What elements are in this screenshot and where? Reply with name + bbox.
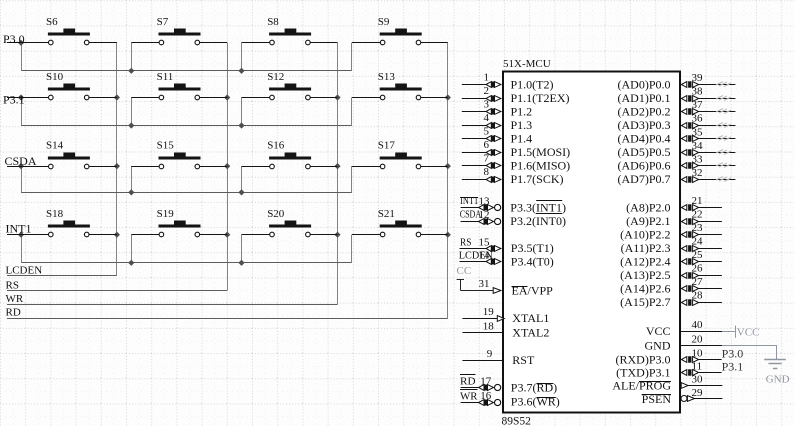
- svg-text:89S52: 89S52: [502, 416, 532, 426]
- svg-text:P1.6(MISO): P1.6(MISO): [511, 159, 571, 173]
- svg-text:GND: GND: [766, 374, 790, 386]
- svg-text:S20: S20: [267, 208, 285, 220]
- svg-text:8: 8: [484, 166, 490, 178]
- svg-text:30: 30: [692, 373, 704, 385]
- svg-text:1: 1: [484, 71, 490, 83]
- svg-text:35: 35: [692, 126, 704, 138]
- svg-text:WR: WR: [460, 390, 478, 402]
- svg-text:XTAL2: XTAL2: [512, 325, 549, 339]
- svg-text:ALE/PROG: ALE/PROG: [612, 379, 671, 393]
- svg-text:(AD3)P0.3: (AD3)P0.3: [618, 118, 671, 132]
- svg-text:(A13)P2.5: (A13)P2.5: [620, 268, 670, 282]
- svg-text:GND: GND: [645, 338, 671, 352]
- svg-text:CSDA: CSDA: [5, 154, 37, 168]
- svg-text:(A15)P2.7: (A15)P2.7: [620, 295, 670, 309]
- svg-text:11: 11: [692, 360, 703, 372]
- svg-text:INT1: INT1: [6, 222, 32, 236]
- svg-text:P1.4: P1.4: [511, 132, 533, 146]
- svg-text:7: 7: [484, 153, 490, 165]
- svg-text:CC: CC: [457, 265, 472, 277]
- svg-text:RS: RS: [460, 236, 472, 248]
- svg-text:36: 36: [692, 113, 704, 125]
- svg-text:24: 24: [692, 236, 704, 248]
- svg-text:28: 28: [692, 290, 704, 302]
- svg-text:2: 2: [484, 85, 490, 97]
- svg-text:S13: S13: [378, 71, 396, 83]
- svg-text:PSEN: PSEN: [642, 392, 672, 406]
- svg-text:S14: S14: [46, 140, 64, 152]
- svg-text:P3.0: P3.0: [3, 32, 25, 46]
- svg-text:3: 3: [484, 98, 490, 110]
- svg-text:S8: S8: [267, 16, 279, 28]
- svg-text:17: 17: [480, 375, 492, 387]
- svg-text:(AD7)P0.7: (AD7)P0.7: [618, 172, 671, 186]
- svg-text:P3.6(WR): P3.6(WR): [511, 395, 560, 409]
- svg-text:S19: S19: [157, 208, 175, 220]
- svg-text:P1.1(T2EX): P1.1(T2EX): [511, 91, 570, 105]
- svg-text:P1.5(MOSI): P1.5(MOSI): [511, 145, 571, 159]
- svg-text:16: 16: [480, 390, 492, 402]
- svg-text:32: 32: [692, 167, 703, 179]
- svg-text:RS: RS: [6, 280, 19, 292]
- svg-text:39: 39: [692, 72, 704, 84]
- svg-text:5: 5: [484, 125, 490, 137]
- svg-text:4: 4: [484, 112, 490, 124]
- svg-text:XTAL1: XTAL1: [512, 311, 549, 325]
- svg-text:LCDEN: LCDEN: [459, 250, 493, 262]
- svg-text:S9: S9: [378, 16, 390, 28]
- svg-text:RD: RD: [6, 306, 21, 318]
- svg-text:P3.3(INT1): P3.3(INT1): [510, 200, 566, 214]
- svg-text:WR: WR: [6, 293, 24, 305]
- svg-text:P1.0(T2): P1.0(T2): [511, 77, 554, 91]
- svg-text:P1.2: P1.2: [511, 104, 533, 118]
- svg-text:31: 31: [479, 278, 490, 290]
- svg-text:CSDA: CSDA: [460, 208, 482, 220]
- svg-text:RST: RST: [512, 353, 535, 367]
- svg-text:(A8)P2.0: (A8)P2.0: [626, 200, 670, 214]
- svg-text:P1.3: P1.3: [511, 118, 533, 132]
- svg-text:P3.4(T0): P3.4(T0): [511, 254, 554, 268]
- svg-text:S7: S7: [157, 16, 169, 28]
- svg-text:27: 27: [692, 276, 704, 288]
- svg-text:40: 40: [692, 319, 704, 331]
- svg-text:(AD0)P0.0: (AD0)P0.0: [618, 77, 671, 91]
- svg-text:S18: S18: [46, 208, 64, 220]
- svg-text:9: 9: [487, 348, 493, 360]
- svg-text:(A10)P2.2: (A10)P2.2: [620, 227, 670, 241]
- svg-text:25: 25: [692, 249, 704, 261]
- svg-text:(A11)P2.3: (A11)P2.3: [621, 241, 671, 255]
- svg-text:P3.5(T1): P3.5(T1): [511, 241, 554, 255]
- svg-text:29: 29: [692, 387, 704, 399]
- svg-text:20: 20: [692, 333, 704, 345]
- svg-text:(AD1)P0.1: (AD1)P0.1: [618, 91, 671, 105]
- svg-text:10: 10: [692, 348, 704, 360]
- svg-text:(AD5)P0.5: (AD5)P0.5: [618, 145, 671, 159]
- svg-text:S6: S6: [46, 16, 58, 28]
- svg-text:51X-MCU: 51X-MCU: [503, 58, 551, 70]
- svg-text:6: 6: [484, 139, 490, 151]
- svg-text:P3.1: P3.1: [722, 359, 744, 373]
- svg-text:15: 15: [479, 236, 491, 248]
- svg-text:37: 37: [692, 99, 704, 111]
- svg-text:VCC: VCC: [737, 326, 760, 338]
- svg-text:(A14)P2.6: (A14)P2.6: [620, 281, 670, 295]
- svg-text:19: 19: [483, 306, 495, 318]
- svg-text:(AD6)P0.6: (AD6)P0.6: [618, 159, 671, 173]
- svg-text:VCC: VCC: [646, 324, 671, 338]
- svg-text:22: 22: [692, 209, 703, 221]
- svg-text:(A12)P2.4: (A12)P2.4: [620, 254, 670, 268]
- svg-text:38: 38: [692, 86, 704, 98]
- svg-text:EA/VPP: EA/VPP: [512, 283, 554, 297]
- svg-text:(AD4)P0.4: (AD4)P0.4: [618, 132, 671, 146]
- svg-text:P3.1: P3.1: [3, 93, 25, 107]
- svg-text:S12: S12: [267, 71, 284, 83]
- svg-text:(AD2)P0.2: (AD2)P0.2: [618, 104, 671, 118]
- svg-text:S10: S10: [46, 71, 64, 83]
- svg-text:RD: RD: [460, 376, 476, 388]
- svg-text:P1.7(SCK): P1.7(SCK): [511, 172, 564, 186]
- svg-text:S15: S15: [157, 140, 175, 152]
- svg-text:(TXD)P3.1: (TXD)P3.1: [616, 365, 670, 379]
- svg-text:(A9)P2.1: (A9)P2.1: [626, 214, 670, 228]
- svg-text:34: 34: [692, 140, 704, 152]
- svg-text:P3.0: P3.0: [722, 346, 744, 360]
- svg-text:S21: S21: [378, 208, 395, 220]
- svg-text:33: 33: [692, 153, 704, 165]
- svg-text:S16: S16: [267, 140, 285, 152]
- svg-text:23: 23: [692, 222, 704, 234]
- svg-text:S17: S17: [378, 140, 396, 152]
- svg-text:26: 26: [692, 263, 704, 275]
- svg-text:P3.7(RD): P3.7(RD): [511, 381, 557, 395]
- svg-text:S11: S11: [157, 71, 174, 83]
- svg-text:LCDEN: LCDEN: [6, 264, 43, 276]
- svg-text:P3.2(INT0): P3.2(INT0): [510, 214, 566, 228]
- svg-text:13: 13: [479, 195, 491, 207]
- svg-text:21: 21: [692, 195, 703, 207]
- svg-text:18: 18: [483, 320, 495, 332]
